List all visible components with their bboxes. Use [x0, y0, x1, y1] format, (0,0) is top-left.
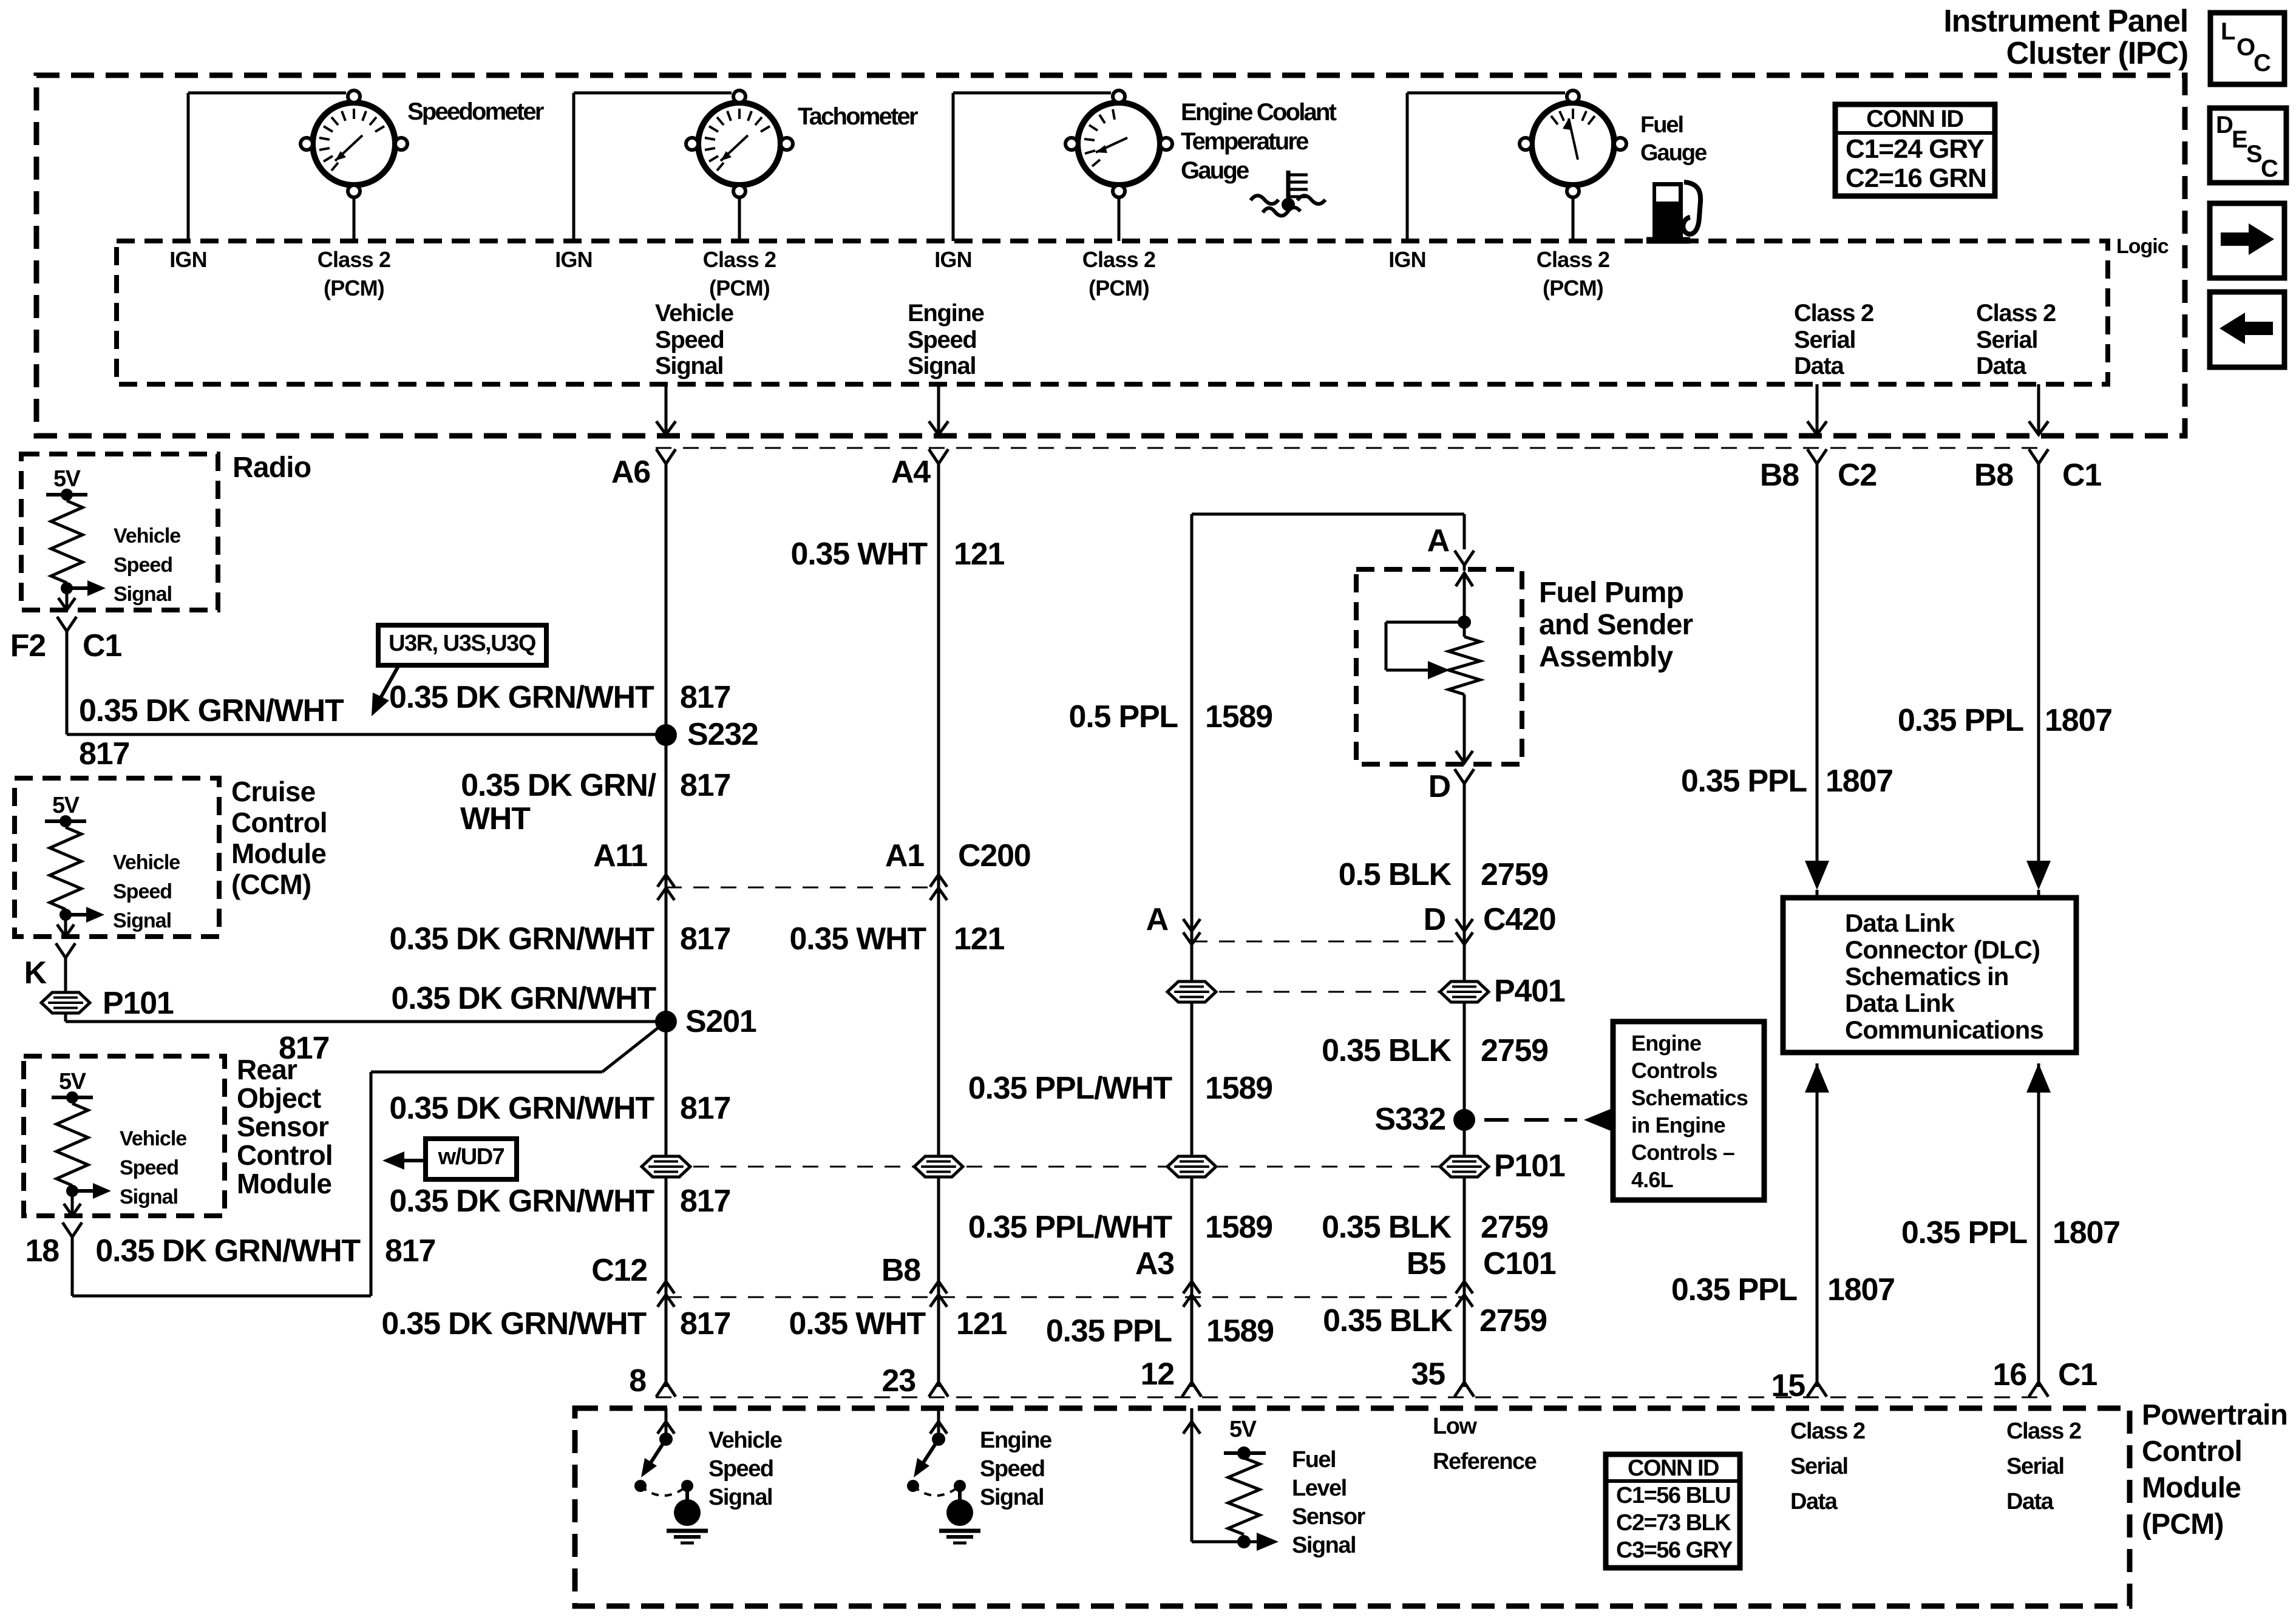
svg-text:(PCM): (PCM) [2142, 1508, 2224, 1541]
svg-text:D: D [1424, 902, 1445, 937]
svg-text:Vehicle: Vehicle [120, 1127, 186, 1150]
svg-text:Cluster (IPC): Cluster (IPC) [2006, 36, 2188, 71]
svg-text:4.6L: 4.6L [1631, 1167, 1673, 1192]
svg-text:Speed: Speed [113, 880, 172, 903]
svg-text:Speed: Speed [120, 1156, 178, 1179]
svg-text:Class 2: Class 2 [1790, 1419, 1865, 1444]
svg-text:1589: 1589 [1206, 1314, 1274, 1349]
svg-text:Connector (DLC): Connector (DLC) [1845, 935, 2040, 964]
svg-text:1807: 1807 [1827, 1272, 1895, 1307]
svg-text:WHT: WHT [460, 801, 531, 836]
svg-text:Data: Data [1794, 353, 1845, 379]
svg-text:817: 817 [680, 768, 730, 803]
svg-text:8: 8 [629, 1363, 646, 1398]
svg-text:K: K [24, 955, 47, 991]
svg-text:16: 16 [1993, 1357, 2027, 1392]
svg-text:Temperature: Temperature [1181, 128, 1308, 155]
svg-text:CONN ID: CONN ID [1628, 1456, 1719, 1481]
svg-text:(PCM): (PCM) [1089, 276, 1149, 300]
svg-text:Engine Coolant: Engine Coolant [1181, 99, 1337, 126]
svg-text:Level: Level [1292, 1476, 1347, 1501]
svg-text:Signal: Signal [114, 583, 172, 606]
svg-text:Module: Module [237, 1168, 331, 1199]
svg-text:(PCM): (PCM) [709, 276, 770, 300]
svg-text:Radio: Radio [233, 452, 311, 484]
svg-text:S: S [2246, 141, 2262, 168]
svg-text:P401: P401 [1494, 974, 1565, 1009]
svg-text:Class 2: Class 2 [2006, 1419, 2081, 1444]
svg-text:0.35 DK GRN/: 0.35 DK GRN/ [461, 768, 656, 803]
svg-text:Gauge: Gauge [1640, 140, 1707, 166]
svg-text:Control: Control [231, 807, 327, 838]
svg-text:0.35 PPL: 0.35 PPL [1671, 1272, 1798, 1307]
svg-text:A1: A1 [885, 838, 924, 873]
svg-text:A11: A11 [593, 838, 647, 873]
svg-text:0.5 PPL: 0.5 PPL [1069, 699, 1178, 734]
svg-text:Control: Control [237, 1139, 333, 1171]
svg-text:Serial: Serial [1976, 327, 2037, 353]
svg-text:Module: Module [231, 838, 326, 869]
svg-text:1589: 1589 [1205, 1071, 1272, 1106]
svg-text:C2: C2 [1838, 458, 1877, 493]
svg-text:0.35 WHT: 0.35 WHT [791, 537, 928, 572]
svg-text:Module: Module [2142, 1472, 2241, 1504]
svg-text:Class 2: Class 2 [1082, 247, 1156, 272]
svg-text:Assembly: Assembly [1539, 641, 1673, 673]
svg-text:Sensor: Sensor [237, 1111, 329, 1142]
svg-text:Controls –: Controls – [1631, 1140, 1734, 1165]
svg-text:C: C [2254, 50, 2271, 76]
svg-text:5V: 5V [53, 466, 81, 492]
svg-text:1807: 1807 [2053, 1215, 2120, 1250]
svg-text:CONN ID: CONN ID [1866, 106, 1963, 132]
svg-text:0.35 DK GRN/WHT: 0.35 DK GRN/WHT [389, 680, 654, 715]
svg-text:Tachometer: Tachometer [798, 103, 918, 130]
svg-text:Signal: Signal [908, 353, 976, 379]
svg-text:2759: 2759 [1479, 1303, 1547, 1338]
svg-text:F2: F2 [10, 628, 46, 663]
svg-text:P101: P101 [1494, 1148, 1565, 1184]
svg-text:C2=73 BLK: C2=73 BLK [1616, 1510, 1731, 1536]
svg-text:Serial: Serial [1790, 1454, 1848, 1479]
svg-text:Vehicle: Vehicle [114, 524, 180, 547]
svg-text:5V: 5V [52, 793, 80, 818]
svg-text:817: 817 [680, 1091, 730, 1126]
svg-text:IGN: IGN [169, 247, 207, 272]
svg-text:C12: C12 [591, 1253, 647, 1288]
svg-text:0.35 DK GRN/WHT: 0.35 DK GRN/WHT [95, 1233, 361, 1269]
svg-text:Control: Control [2142, 1436, 2242, 1468]
svg-text:817: 817 [680, 921, 730, 957]
svg-text:Signal: Signal [120, 1185, 178, 1209]
svg-text:A3: A3 [1135, 1246, 1174, 1281]
svg-text:Object: Object [237, 1082, 321, 1114]
svg-text:A: A [1146, 902, 1169, 937]
svg-text:2759: 2759 [1481, 1033, 1548, 1068]
svg-text:0.35 WHT: 0.35 WHT [789, 1306, 926, 1341]
svg-text:0.35 DK GRN/WHT: 0.35 DK GRN/WHT [389, 1184, 654, 1219]
svg-text:Fuel: Fuel [1292, 1447, 1336, 1473]
svg-text:0.35 DK GRN/WHT: 0.35 DK GRN/WHT [389, 921, 654, 957]
svg-text:and Sender: and Sender [1539, 609, 1693, 641]
svg-text:C3=56 GRY: C3=56 GRY [1616, 1537, 1733, 1563]
svg-text:Logic: Logic [2116, 235, 2169, 258]
svg-text:0.5 BLK: 0.5 BLK [1339, 857, 1452, 892]
svg-text:Speedometer: Speedometer [407, 98, 544, 125]
svg-text:0.35 BLK: 0.35 BLK [1323, 1303, 1453, 1338]
svg-text:817: 817 [385, 1233, 435, 1269]
svg-text:Reference: Reference [1433, 1449, 1537, 1474]
svg-text:121: 121 [954, 921, 1004, 957]
svg-text:Signal: Signal [655, 353, 723, 379]
svg-text:Data: Data [2006, 1489, 2054, 1514]
svg-text:A: A [1427, 523, 1450, 558]
svg-text:Engine: Engine [980, 1428, 1051, 1453]
svg-text:Vehicle: Vehicle [113, 851, 180, 874]
svg-text:817: 817 [79, 736, 129, 771]
svg-text:Signal: Signal [113, 909, 171, 932]
svg-text:1807: 1807 [1826, 764, 1893, 799]
svg-text:U3R, U3S,U3Q: U3R, U3S,U3Q [389, 631, 535, 656]
svg-text:Engine: Engine [1631, 1031, 1701, 1056]
svg-text:Schematics: Schematics [1631, 1085, 1748, 1110]
svg-text:Sensor: Sensor [1292, 1504, 1366, 1530]
svg-text:121: 121 [956, 1306, 1007, 1341]
svg-text:Instrument Panel: Instrument Panel [1943, 4, 2188, 39]
svg-text:C420: C420 [1483, 902, 1556, 937]
svg-text:C1: C1 [83, 628, 121, 663]
svg-text:817: 817 [680, 1184, 730, 1219]
svg-text:C2=16 GRN: C2=16 GRN [1846, 163, 1986, 193]
svg-text:2759: 2759 [1481, 1210, 1548, 1245]
svg-text:A4: A4 [891, 455, 931, 490]
svg-text:IGN: IGN [555, 247, 593, 272]
svg-text:0.35 BLK: 0.35 BLK [1322, 1033, 1452, 1068]
svg-text:121: 121 [954, 537, 1004, 572]
svg-text:Data Link: Data Link [1845, 989, 1955, 1017]
svg-text:Class 2: Class 2 [318, 247, 391, 272]
svg-text:Class 2: Class 2 [1794, 300, 1873, 327]
svg-text:5V: 5V [59, 1069, 87, 1094]
svg-text:D: D [1428, 769, 1450, 804]
svg-text:0.35 DK GRN/WHT: 0.35 DK GRN/WHT [79, 693, 344, 728]
svg-text:C101: C101 [1483, 1246, 1556, 1281]
svg-text:P101: P101 [103, 986, 174, 1021]
svg-text:35: 35 [1411, 1357, 1445, 1392]
svg-text:E: E [2232, 126, 2247, 153]
svg-text:Class 2: Class 2 [1537, 247, 1610, 272]
svg-text:IGN: IGN [1388, 247, 1426, 272]
svg-text:Schematics in: Schematics in [1845, 962, 2008, 991]
svg-text:5V: 5V [1229, 1417, 1257, 1442]
svg-text:B5: B5 [1407, 1246, 1445, 1281]
svg-text:0.35 PPL: 0.35 PPL [1681, 764, 1807, 799]
svg-text:Data: Data [1976, 353, 2027, 379]
svg-text:18: 18 [25, 1233, 59, 1269]
svg-text:in Engine: in Engine [1631, 1113, 1725, 1137]
svg-text:S332: S332 [1374, 1102, 1445, 1137]
svg-text:Serial: Serial [2006, 1454, 2064, 1479]
svg-text:Fuel Pump: Fuel Pump [1539, 577, 1683, 609]
svg-text:C1: C1 [2058, 1357, 2097, 1392]
svg-text:S232: S232 [687, 717, 758, 752]
svg-text:Speed: Speed [980, 1456, 1045, 1482]
svg-text:w/UD7: w/UD7 [438, 1144, 504, 1170]
svg-text:Data Link: Data Link [1845, 909, 1955, 937]
svg-text:B8: B8 [1760, 458, 1799, 493]
svg-text:C200: C200 [958, 838, 1031, 873]
svg-text:1589: 1589 [1205, 699, 1272, 734]
svg-text:A6: A6 [611, 455, 650, 490]
svg-text:Vehicle: Vehicle [655, 300, 733, 327]
svg-text:Signal: Signal [1292, 1533, 1356, 1558]
svg-text:23: 23 [882, 1363, 916, 1398]
svg-text:Serial: Serial [1794, 327, 1855, 353]
svg-text:1589: 1589 [1205, 1210, 1272, 1245]
svg-text:C1=24 GRY: C1=24 GRY [1846, 134, 1984, 164]
svg-text:15: 15 [1771, 1368, 1805, 1403]
svg-text:0.35 DK GRN/WHT: 0.35 DK GRN/WHT [381, 1306, 647, 1341]
svg-text:Signal: Signal [708, 1485, 772, 1510]
svg-text:(PCM): (PCM) [324, 276, 384, 300]
svg-text:0.35 PPL/WHT: 0.35 PPL/WHT [968, 1071, 1173, 1106]
svg-text:Low: Low [1433, 1414, 1477, 1439]
svg-text:Speed: Speed [708, 1456, 773, 1482]
svg-text:Engine: Engine [908, 300, 984, 327]
svg-text:Communications: Communications [1845, 1015, 2043, 1044]
svg-text:C: C [2261, 155, 2278, 182]
svg-text:0.35 DK GRN/WHT: 0.35 DK GRN/WHT [391, 981, 656, 1016]
svg-text:B8: B8 [1974, 458, 2013, 493]
svg-text:817: 817 [279, 1031, 329, 1066]
svg-text:0.35 PPL: 0.35 PPL [1901, 1215, 2028, 1250]
svg-text:Class 2: Class 2 [1976, 300, 2056, 327]
svg-text:Speed: Speed [114, 554, 172, 577]
svg-text:Signal: Signal [980, 1485, 1044, 1510]
svg-text:Class 2: Class 2 [703, 247, 776, 272]
svg-text:1807: 1807 [2045, 703, 2112, 738]
svg-text:0.35 DK GRN/WHT: 0.35 DK GRN/WHT [389, 1091, 654, 1126]
svg-text:Controls: Controls [1631, 1058, 1717, 1083]
svg-text:S201: S201 [685, 1004, 756, 1039]
svg-text:0.35 BLK: 0.35 BLK [1322, 1210, 1452, 1245]
svg-text:Gauge: Gauge [1181, 157, 1249, 184]
svg-text:Cruise: Cruise [231, 776, 316, 807]
svg-text:12: 12 [1141, 1357, 1174, 1392]
svg-text:0.35 PPL: 0.35 PPL [1046, 1314, 1172, 1349]
svg-text:Vehicle: Vehicle [708, 1428, 782, 1453]
svg-text:L: L [2221, 18, 2235, 45]
svg-text:Speed: Speed [908, 327, 977, 353]
svg-text:D: D [2216, 112, 2233, 138]
svg-text:(CCM): (CCM) [231, 869, 311, 900]
svg-text:Powertrain: Powertrain [2142, 1399, 2288, 1431]
svg-text:C1=56 BLU: C1=56 BLU [1616, 1483, 1730, 1508]
svg-text:B8: B8 [881, 1253, 920, 1288]
svg-text:Speed: Speed [655, 327, 724, 353]
svg-text:(PCM): (PCM) [1543, 276, 1603, 300]
svg-text:817: 817 [680, 1306, 730, 1341]
svg-text:0.35 PPL/WHT: 0.35 PPL/WHT [968, 1210, 1173, 1245]
svg-text:0.35 WHT: 0.35 WHT [790, 921, 927, 957]
svg-text:Data: Data [1790, 1489, 1838, 1514]
svg-text:0.35 PPL: 0.35 PPL [1898, 703, 2024, 738]
svg-text:C1: C1 [2062, 458, 2101, 493]
svg-text:Fuel: Fuel [1640, 112, 1683, 138]
svg-text:IGN: IGN [934, 247, 972, 272]
svg-text:2759: 2759 [1481, 857, 1548, 892]
svg-text:817: 817 [680, 680, 730, 715]
svg-text:O: O [2237, 34, 2255, 61]
